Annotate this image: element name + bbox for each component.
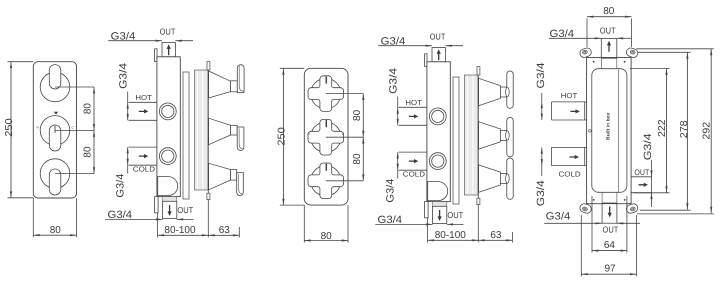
handle 3 lever bar (side view) (237, 173, 244, 196)
svg-text:222: 222 (657, 119, 668, 137)
cross handle 1 cone (side view) (479, 78, 501, 105)
handle 1 stem (side view) (231, 81, 238, 92)
dimension 64 (box opening width) (591, 196, 593, 253)
svg-text:OUT: OUT (177, 205, 193, 215)
top outlet port (side view) (162, 43, 175, 57)
outlet gasket strip (side view) (433, 202, 447, 207)
svg-text:80: 80 (82, 103, 93, 115)
svg-text:80-100: 80-100 (164, 225, 196, 236)
knockout dot on box left side (589, 130, 592, 133)
leader lines from handle centers (unit 1) (55, 86, 94, 88)
handle 2 lever bar (side view) (237, 127, 244, 150)
valve body (side view) (157, 57, 180, 197)
cross handle 2 (unit 2) (308, 119, 344, 155)
screw dot top-left (box) (593, 61, 595, 63)
flow arrow right (box cold inlet) (570, 155, 580, 159)
bottom outlet port (side view) (433, 206, 447, 223)
hot inlet mouth lines (side view) (399, 106, 427, 108)
flow arrow right (box hot inlet) (570, 109, 580, 113)
mounting ear top-left (box) (579, 47, 592, 59)
lever handle top (unit 1, pointing up) (49, 65, 61, 89)
cross handle escutcheon circle 1 (unit 2) (311, 78, 341, 108)
bottom outlet port (side view) (163, 201, 177, 218)
svg-text:G3/4: G3/4 (535, 62, 547, 88)
svg-text:G3/4: G3/4 (546, 211, 571, 223)
flow arrow right (box side outlet) (639, 183, 649, 187)
svg-text:G3/4: G3/4 (388, 68, 400, 94)
flow arrow up (top outlet) (167, 44, 171, 55)
cross handle 3 index mark (unit 2) (325, 164, 327, 171)
svg-text:63: 63 (490, 230, 502, 241)
flow arrow down (bottom outlet) (168, 205, 172, 216)
cold inlet mouth lines (side view) (399, 151, 427, 153)
dimension 80 (unit 2 handle spacing upper) (362, 94, 364, 138)
wall plate cross-section (side view) (195, 70, 209, 190)
cross handle 3 blade (side view) (507, 158, 513, 199)
mounting ear hole bottom-right (box) (630, 207, 636, 212)
mounting ear hole bottom-left (box) (582, 207, 588, 212)
flow arrow down (box bottom outlet) (608, 206, 612, 217)
mounting ear bottom-left (box) (579, 203, 592, 215)
flow arrow right (hot inlet) (139, 109, 149, 113)
bottom outlet elbow (side view) (428, 182, 448, 201)
lever handle middle (unit 1, pointing down) (49, 125, 61, 151)
cross handle 3 center knob (side view) (506, 174, 510, 183)
svg-text:250: 250 (4, 118, 15, 137)
cold inlet mouth lines (side view) (129, 146, 157, 148)
cross handle escutcheon circle 3 (unit 2) (311, 166, 341, 196)
svg-text:COLD: COLD (559, 169, 581, 178)
cross handle 3 stem (side view) (500, 174, 506, 184)
dimension 80-100 (unit 1 mounting depth) (157, 213, 159, 238)
svg-text:OUT: OUT (603, 224, 619, 234)
svg-text:OUT: OUT (447, 210, 463, 220)
svg-text:HOT: HOT (135, 93, 152, 102)
mounting ear hole top-left (box) (582, 50, 588, 55)
hot inlet mouth lines (side view) (129, 101, 157, 103)
dimension 97 (box overall width) (580, 215, 582, 276)
cross handle 3 cone (side view) (479, 165, 501, 192)
svg-text:G3/4: G3/4 (118, 63, 130, 89)
handle index tab top (side view) (207, 62, 210, 70)
screw dot bottom-left (box) (593, 199, 595, 201)
cartridge housing section (side view) (183, 72, 189, 199)
handle 3 cone (side view) (209, 163, 231, 190)
bottom outlet elbow (side view) (158, 177, 178, 196)
svg-text:80: 80 (352, 153, 363, 165)
svg-text:250: 250 (276, 127, 287, 146)
inner sleeve edge line (box) (618, 69, 620, 192)
flow arrow up (top outlet) (437, 49, 441, 60)
svg-text:80: 80 (603, 6, 615, 17)
svg-text:OUT: OUT (600, 25, 616, 35)
cross handle 1 blade (side view) (507, 71, 513, 108)
flow arrow right (cold inlet) (409, 159, 419, 163)
dimension 80 (unit 2 plate width) (303, 205, 305, 243)
cross handle 1 center knob (side view) (506, 87, 510, 96)
box top outlet port (601, 38, 617, 57)
svg-text:292: 292 (702, 121, 713, 139)
screw dot top-right (box) (624, 61, 626, 63)
handle index tab bottom (side view) (477, 198, 480, 204)
dimension 250 (unit 1 overall height) (8, 61, 34, 63)
mounting flange tab top (side view) (155, 49, 157, 62)
handle 2 stem (side view) (231, 125, 238, 135)
cross handle 1 index mark (unit 2) (325, 76, 327, 83)
handle 1 lever bar (side view) (237, 65, 244, 93)
svg-text:64: 64 (604, 240, 616, 251)
cross handle 2 cone (side view) (479, 122, 501, 149)
svg-text:80: 80 (352, 109, 363, 121)
svg-text:80-100: 80-100 (435, 230, 467, 241)
handle 3 stem (side view) (231, 170, 237, 181)
flow arrow right (hot inlet) (409, 114, 419, 118)
svg-text:80: 80 (321, 231, 333, 242)
svg-text:OUT: OUT (634, 168, 649, 177)
cross handle escutcheon circle 2 (unit 2) (311, 122, 341, 152)
screw dot bottom-right (box) (624, 199, 626, 201)
svg-text:63: 63 (219, 225, 231, 236)
mounting ear bottom-right (box) (625, 203, 638, 215)
mounting flange tab top (side view) (425, 54, 427, 67)
svg-text:278: 278 (679, 120, 690, 138)
cross handle 2 center knob (side view) (506, 131, 510, 140)
flow arrow up (box top outlet) (607, 41, 611, 52)
handle 1 cone (side view) (209, 71, 231, 98)
box bottom outlet port (602, 204, 617, 224)
svg-text:HOT: HOT (561, 91, 578, 100)
hot inlet boss circles (side view) (429, 108, 446, 125)
built-in box outer body (587, 58, 632, 204)
cross handle 2 blade (side view) (507, 117, 513, 156)
mounting flange tab bottom (side view) (425, 202, 429, 218)
cross handle 3 (unit 2) (308, 163, 344, 199)
handle 2 cone (side view) (209, 118, 231, 145)
dimension 80 (unit 2 handle spacing lower) (362, 137, 364, 181)
box inner opening (592, 69, 627, 193)
dimension 80 (unit 1 plate width) (32, 198, 34, 237)
svg-text:80: 80 (50, 225, 62, 236)
svg-text:COLD: COLD (133, 165, 155, 174)
wall plate cross-section (side view) (465, 75, 479, 195)
svg-text:G3/4: G3/4 (115, 173, 127, 197)
hot inlet boss circles (side view) (159, 103, 176, 120)
handle index tab top (side view) (477, 67, 480, 75)
flow arrow down (bottom outlet) (438, 210, 442, 221)
mounting flange tab bottom (side view) (155, 197, 159, 213)
cross handle 2 index mark (unit 2) (325, 120, 327, 127)
cold inlet boss circles (side view) (159, 148, 176, 165)
cross handle 1 stem (side view) (500, 87, 506, 97)
38C safety-stop marker triangle (unit 1 middle handle) (54, 112, 58, 115)
lever-handle trim plate (front view, unit 1) (33, 62, 76, 198)
svg-text:80: 80 (82, 146, 93, 158)
svg-text:G3/4: G3/4 (535, 180, 547, 206)
svg-text:97: 97 (604, 264, 616, 275)
dimension 278 (box hole spacing) (638, 51, 691, 53)
valve body (side view) (427, 62, 450, 202)
cross-handle trim plate (front view, unit 2) (304, 68, 348, 205)
side outlet port (box) (631, 176, 651, 178)
hot inlet port (box) (552, 101, 587, 103)
cold inlet boss circles (side view) (429, 153, 446, 170)
dimension 292 (box overall height) (636, 48, 714, 50)
dimension 250 (unit 2 overall height) (280, 67, 305, 69)
svg-text:G3/4: G3/4 (385, 178, 397, 202)
mounting ear top-right (box) (625, 47, 638, 59)
svg-text:OUT: OUT (430, 31, 446, 41)
top outlet port (side view) (432, 48, 445, 62)
dimension 63 (unit 2 handle projection) (511, 232, 513, 243)
svg-text:G3/4: G3/4 (642, 133, 654, 160)
dimension 80 (unit 1 handle spacing upper) (93, 87, 95, 130)
dimension 222 (box opening height) (630, 68, 670, 70)
leader lines from handle centers (unit 2) (326, 93, 364, 95)
dimension 80 (unit 1 handle spacing lower) (93, 130, 95, 173)
handle escutcheon circle 3 (unit 1) (40, 159, 70, 189)
dimension 63 (unit 1 handle projection) (238, 227, 240, 238)
cross handle 2 stem (side view) (500, 130, 506, 140)
top port column hidden lines (box) (600, 58, 602, 69)
svg-text:OUT: OUT (160, 26, 176, 36)
cross handle 1 (unit 2) (308, 76, 344, 112)
trim plate front face line (side view) (477, 72, 479, 242)
svg-text:HOT: HOT (405, 98, 422, 107)
dimension 80 (box width) (586, 19, 588, 48)
mounting ear hole top-right (box) (630, 50, 636, 55)
svg-text:COLD: COLD (403, 170, 425, 179)
handle escutcheon circle 1 (unit 1) (40, 72, 70, 102)
bottom port column hidden lines (box) (601, 192, 603, 203)
cartridge housing section (side view) (453, 77, 459, 204)
handle index tab bottom (side view) (207, 193, 210, 199)
dimension 80-100 (unit 2 mounting depth) (427, 218, 429, 243)
cold inlet port (box) (551, 146, 586, 148)
flow arrow right (cold inlet) (139, 154, 149, 158)
lever handle bottom (unit 1, pointing down) (49, 169, 61, 195)
svg-text:Built in box: Built in box (606, 112, 611, 140)
trim plate front face line (side view) (207, 67, 209, 237)
handle escutcheon circle 2 (unit 1) (40, 116, 70, 146)
outlet gasket strip (side view) (163, 197, 177, 202)
